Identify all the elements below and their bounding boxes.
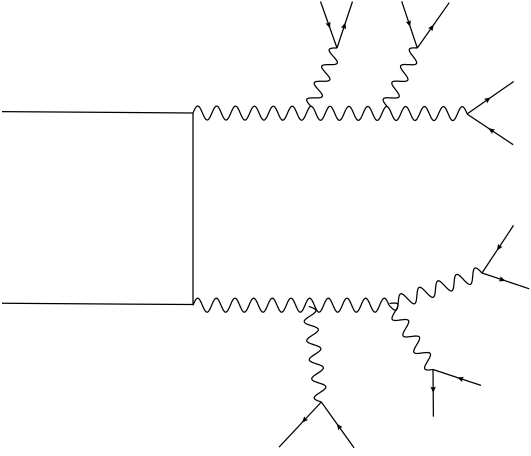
- fermion incoming at V2: [402, 1, 418, 48]
- fermion outgoing at VE1: [467, 82, 514, 115]
- fermion incoming at VE2: [482, 225, 514, 273]
- arrow incoming V1: [325, 21, 330, 28]
- arrow incoming V4: [457, 377, 464, 382]
- photon branch bottom-1: [304, 307, 326, 403]
- fermion outgoing at V2: [417, 3, 449, 48]
- photon line top main: [193, 106, 467, 121]
- fermion incoming at V4: [433, 370, 481, 386]
- fermion outgoing at VE2: [482, 273, 529, 289]
- arrow incoming V3: [337, 424, 343, 431]
- fermion outgoing down at V4: [432, 370, 434, 417]
- arrow incoming V2: [406, 20, 411, 27]
- arrow outgoing V3: [302, 416, 308, 423]
- photon line bottom horizontal: [193, 298, 389, 312]
- arrow outgoing V4: [430, 387, 435, 394]
- arrow incoming VE2: [497, 244, 503, 251]
- photon branch bottom-2: [390, 303, 434, 370]
- fermion incoming at V3: [321, 402, 354, 448]
- fermion incoming at V1: [321, 2, 338, 49]
- arrow outgoing VE1: [484, 97, 491, 103]
- incoming line bottom: [2, 303, 193, 304]
- fermion outgoing at V1: [337, 2, 353, 49]
- vertical vertex line: [192, 113, 194, 305]
- fermion outgoing at V3: [279, 402, 321, 447]
- incoming line top: [2, 112, 193, 113]
- fermion incoming at VE1: [467, 114, 513, 145]
- photon line bottom sloped: [389, 268, 482, 310]
- photon branch top-1: [307, 48, 338, 106]
- arrow incoming VE1: [488, 128, 495, 134]
- arrow outgoing VE2: [499, 276, 506, 281]
- photon branch top-2: [383, 48, 417, 106]
- arrow outgoing V1: [341, 22, 346, 29]
- arrow outgoing V2: [428, 24, 434, 31]
